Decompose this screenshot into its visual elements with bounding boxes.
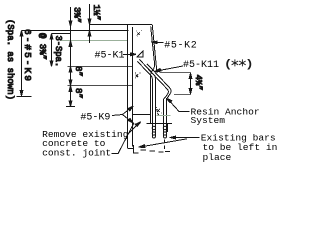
svg-text:#5-K1: #5-K1 bbox=[95, 50, 125, 61]
label K11 stars bbox=[225, 59, 253, 71]
wall top line bbox=[128, 24, 153, 26]
svg-text:System: System bbox=[191, 115, 226, 126]
wire removal line (green) bbox=[60, 40, 128, 42]
svg-text:const. joint: const. joint bbox=[42, 147, 111, 158]
svg-text:8”: 8” bbox=[73, 88, 83, 99]
dimension 3-Spa D1 bbox=[50, 34, 71, 67]
svg-text:#5-K11: #5-K11 bbox=[183, 60, 219, 71]
rebar #5-K2 slant and leg bbox=[151, 27, 155, 124]
wire dashed existing bar right vertical bbox=[165, 140, 170, 152]
svg-text:(Spa. as shown): (Spa. as shown) bbox=[5, 19, 15, 100]
dimension overall left D0 bbox=[17, 31, 32, 97]
rebar K11 bar1 diagonal and leg bbox=[137, 59, 155, 136]
svg-text:place: place bbox=[203, 152, 232, 163]
wire existing face vertical right bbox=[167, 124, 169, 132]
leader Remove existing bbox=[128, 122, 141, 134]
svg-text:3⅜”: 3⅜” bbox=[72, 7, 82, 23]
rebar K11 bar2 diagonal and leg bbox=[145, 64, 171, 137]
leader #5-K1 bbox=[123, 53, 136, 56]
svg-text:): ) bbox=[247, 59, 253, 71]
svg-text:#5-K9: #5-K9 bbox=[80, 113, 110, 124]
aggregate mark upper bbox=[136, 31, 141, 36]
wire existing top inside wall bbox=[133, 114, 151, 116]
rebar #5-K2 foot tick bbox=[155, 109, 157, 111]
leader #5-K9 fork bbox=[112, 106, 133, 123]
const joint L mark bbox=[134, 145, 139, 153]
aggregate mark between bars bbox=[156, 107, 162, 115]
dimension anchor embed bracket bbox=[160, 73, 192, 95]
wall front face V1 bbox=[127, 25, 129, 149]
svg-text:1½”: 1½” bbox=[91, 5, 101, 21]
rebar K11 bar2 anchor bbox=[164, 137, 167, 139]
wall back slant face bbox=[152, 24, 157, 73]
leader const joint bbox=[111, 123, 134, 154]
svg-text:#5-K2: #5-K2 bbox=[164, 41, 197, 52]
svg-text:@ 3⅜”: @ 3⅜” bbox=[37, 33, 47, 60]
wall inner face V2 bbox=[132, 27, 134, 147]
wire existing surface right bbox=[147, 123, 173, 125]
svg-text:8”: 8” bbox=[73, 66, 83, 77]
leader #5-K11 bbox=[155, 66, 183, 72]
rebar K11 bar1 anchor bbox=[152, 137, 155, 139]
dimension 1.5in D3 bbox=[88, 4, 91, 43]
rebar #5-K1 hook triangle bbox=[137, 51, 143, 57]
svg-text:6-#5-K9: 6-#5-K9 bbox=[22, 29, 33, 83]
leader Existing bars diagonal bbox=[139, 139, 187, 148]
wire bar line L4 bbox=[68, 85, 133, 87]
wire top slab line L1 bbox=[90, 24, 128, 26]
svg-text:(: ( bbox=[225, 59, 231, 71]
aggregate mark mid bbox=[135, 73, 140, 78]
dimension stack line D2 bbox=[66, 7, 75, 107]
leader Resin Anchor bbox=[166, 98, 189, 111]
wire removal green right bbox=[157, 115, 171, 117]
svg-text:4⅜”: 4⅜” bbox=[193, 75, 203, 91]
leader #5-K2 bbox=[151, 41, 163, 43]
wire top slab line L2 bbox=[22, 30, 129, 32]
leader Existing bars horizontal bbox=[170, 136, 200, 139]
wire bar line L3 bbox=[68, 66, 133, 68]
svg-text:3-Spa.: 3-Spa. bbox=[53, 36, 63, 68]
wall bottom bbox=[128, 148, 134, 150]
wire dashed existing bar bottom1 bbox=[141, 150, 164, 152]
